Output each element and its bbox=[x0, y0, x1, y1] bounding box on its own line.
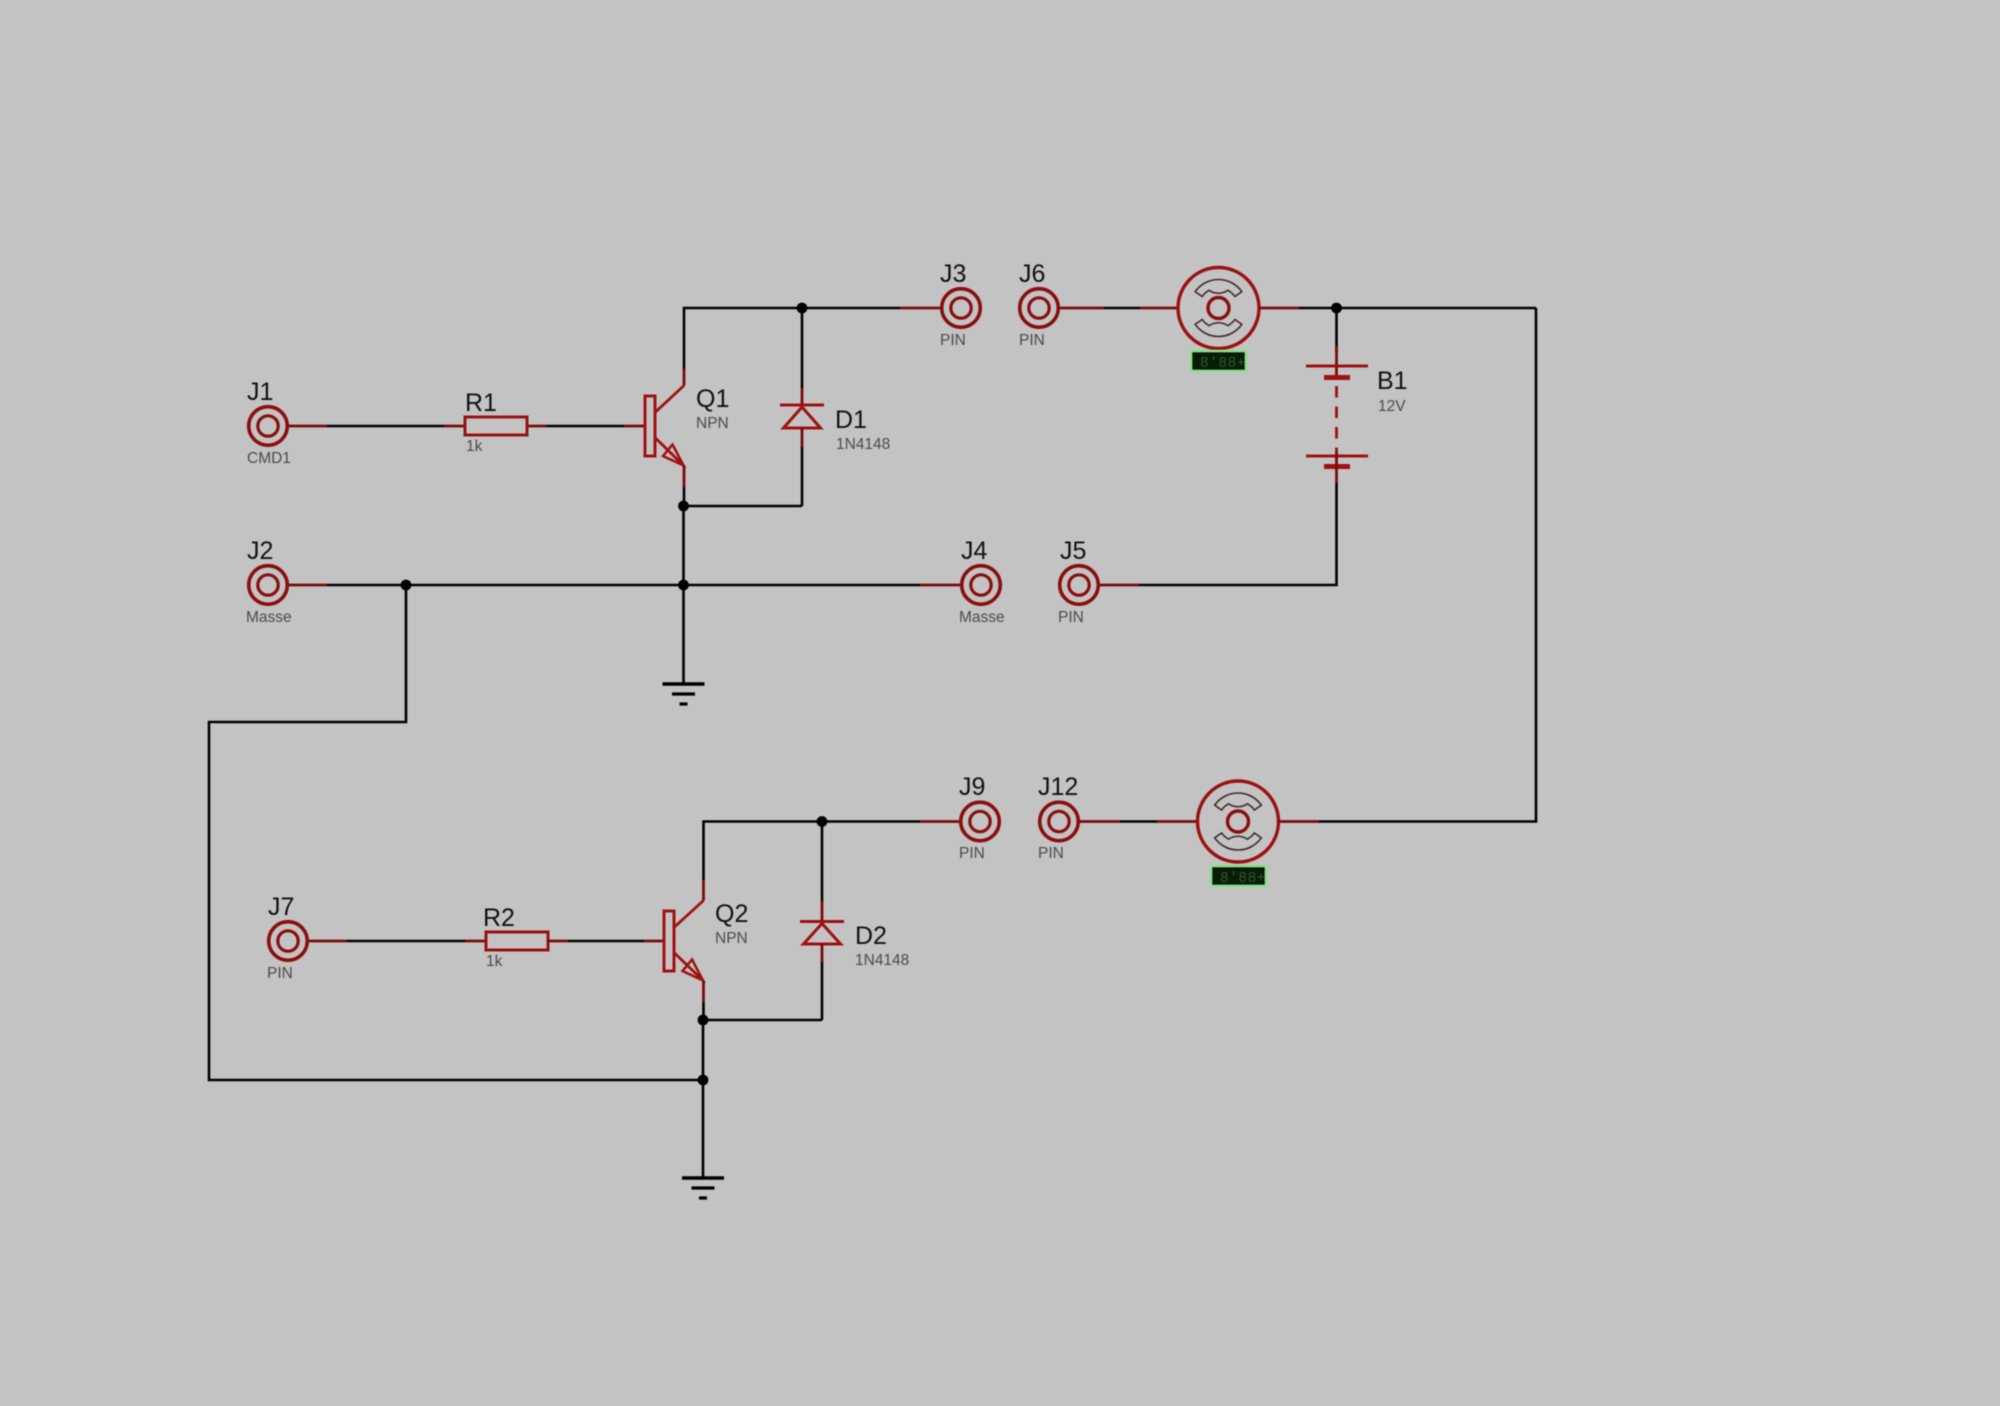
wire D2 top bbox=[821, 822, 824, 902]
diode D1 bbox=[780, 388, 890, 453]
wire right rail bbox=[1319, 308, 1536, 822]
connector J1 bbox=[247, 378, 291, 467]
svg-text:PIN: PIN bbox=[1019, 332, 1045, 349]
wire Q1 emitter to bottom junction bbox=[684, 487, 802, 506]
svg-text:PIN: PIN bbox=[940, 332, 966, 349]
connector J12 bbox=[1038, 773, 1078, 862]
svg-text:Q1: Q1 bbox=[696, 385, 729, 413]
svg-text:J3: J3 bbox=[940, 260, 966, 288]
motor M1 bbox=[1178, 268, 1259, 349]
wire left loop to lower circuit bbox=[209, 585, 703, 1080]
node Q2 emitter junction bbox=[698, 1015, 709, 1026]
wire emitter junction down to ground bbox=[682, 506, 685, 684]
resistor R1 bbox=[465, 389, 527, 455]
svg-text:1N4148: 1N4148 bbox=[836, 436, 890, 453]
wire Q2 emitter to bottom junction bbox=[704, 1002, 823, 1020]
connector J5 bbox=[1058, 537, 1098, 626]
wire stub into J5 bbox=[1099, 584, 1140, 587]
svg-text:1k: 1k bbox=[466, 438, 483, 455]
wire emitter junction down to ground GND2 bbox=[702, 1020, 705, 1178]
svg-text:J6: J6 bbox=[1019, 260, 1045, 288]
node D1 top junction bbox=[797, 303, 808, 314]
svg-text:Q2: Q2 bbox=[715, 900, 748, 928]
node battery top junction bbox=[1331, 303, 1342, 314]
connector J9 bbox=[959, 773, 999, 862]
battery B1 bbox=[1306, 346, 1408, 483]
svg-text:J1: J1 bbox=[247, 378, 273, 406]
svg-text:R1: R1 bbox=[465, 389, 497, 417]
wire stub into J9 bbox=[920, 820, 960, 823]
svg-text:1k: 1k bbox=[486, 953, 503, 970]
svg-text:PIN: PIN bbox=[267, 965, 293, 982]
svg-text:J5: J5 bbox=[1060, 537, 1086, 565]
wire D1 bottom bbox=[801, 447, 804, 506]
svg-text:R2: R2 bbox=[483, 904, 515, 932]
svg-text:NPN: NPN bbox=[696, 415, 729, 432]
connector J3 bbox=[940, 260, 980, 349]
wire motor M2 to right rail bbox=[1279, 820, 1320, 823]
wire Q2 collector to rail bbox=[704, 822, 921, 881]
ground GND1 bbox=[663, 684, 705, 704]
svg-text:J9: J9 bbox=[959, 773, 985, 801]
wire J2 ground row bbox=[289, 584, 961, 587]
display M2 readout bbox=[1211, 866, 1266, 887]
svg-text:Masse: Masse bbox=[246, 609, 292, 626]
wire D1 top bbox=[801, 308, 804, 388]
wire D2 bottom bbox=[821, 962, 824, 1020]
svg-text:Masse: Masse bbox=[959, 609, 1005, 626]
wire R1 to Q1 base bbox=[527, 425, 645, 428]
svg-text:D2: D2 bbox=[855, 922, 887, 950]
svg-text:CMD1: CMD1 bbox=[247, 450, 291, 467]
svg-text:12V: 12V bbox=[1378, 398, 1406, 415]
svg-text:PIN: PIN bbox=[1038, 845, 1064, 862]
diode D2 bbox=[800, 901, 909, 969]
resistor R2 bbox=[483, 904, 548, 970]
svg-text:PIN: PIN bbox=[959, 845, 985, 862]
svg-text:J12: J12 bbox=[1038, 773, 1078, 801]
svg-text:J2: J2 bbox=[247, 537, 273, 565]
node ground row junction bbox=[678, 580, 689, 591]
svg-text:D1: D1 bbox=[835, 406, 867, 434]
wire motor M1 to right rail bbox=[1259, 307, 1536, 310]
wire J7 to R2 bbox=[309, 940, 486, 943]
wire stub into J3 bbox=[900, 307, 942, 310]
motor M2 bbox=[1198, 781, 1279, 862]
ground GND2 bbox=[682, 1178, 724, 1198]
svg-text:J4: J4 bbox=[961, 537, 988, 565]
svg-text:1N4148: 1N4148 bbox=[855, 952, 909, 969]
connector J4 bbox=[959, 537, 1005, 626]
transistor Q1 bbox=[645, 369, 729, 487]
wire Q1 collector to top rail bbox=[684, 308, 900, 369]
node J2 branch junction bbox=[401, 580, 412, 591]
svg-text:NPN: NPN bbox=[715, 930, 748, 947]
node Q1 emitter junction bbox=[678, 501, 689, 512]
node left loop junction bbox=[698, 1075, 709, 1086]
wire R2 to Q2 base bbox=[548, 940, 664, 943]
connector J2 bbox=[246, 537, 292, 626]
wire J12 to motor M2 bbox=[1080, 820, 1198, 823]
svg-text:J7: J7 bbox=[268, 893, 294, 921]
wire battery top bbox=[1335, 308, 1338, 352]
node D2 top junction bbox=[817, 816, 828, 827]
wire J6 to motor M1 bbox=[1060, 307, 1179, 310]
transistor Q2 bbox=[664, 880, 748, 1002]
wire battery bottom to J5 bbox=[1139, 483, 1337, 585]
connector J7 bbox=[267, 893, 307, 982]
svg-text:PIN: PIN bbox=[1058, 609, 1084, 626]
display M1 readout bbox=[1191, 351, 1246, 372]
svg-text:B1: B1 bbox=[1377, 367, 1408, 395]
wire J1 to R1 bbox=[289, 425, 465, 428]
connector J6 bbox=[1019, 260, 1058, 349]
